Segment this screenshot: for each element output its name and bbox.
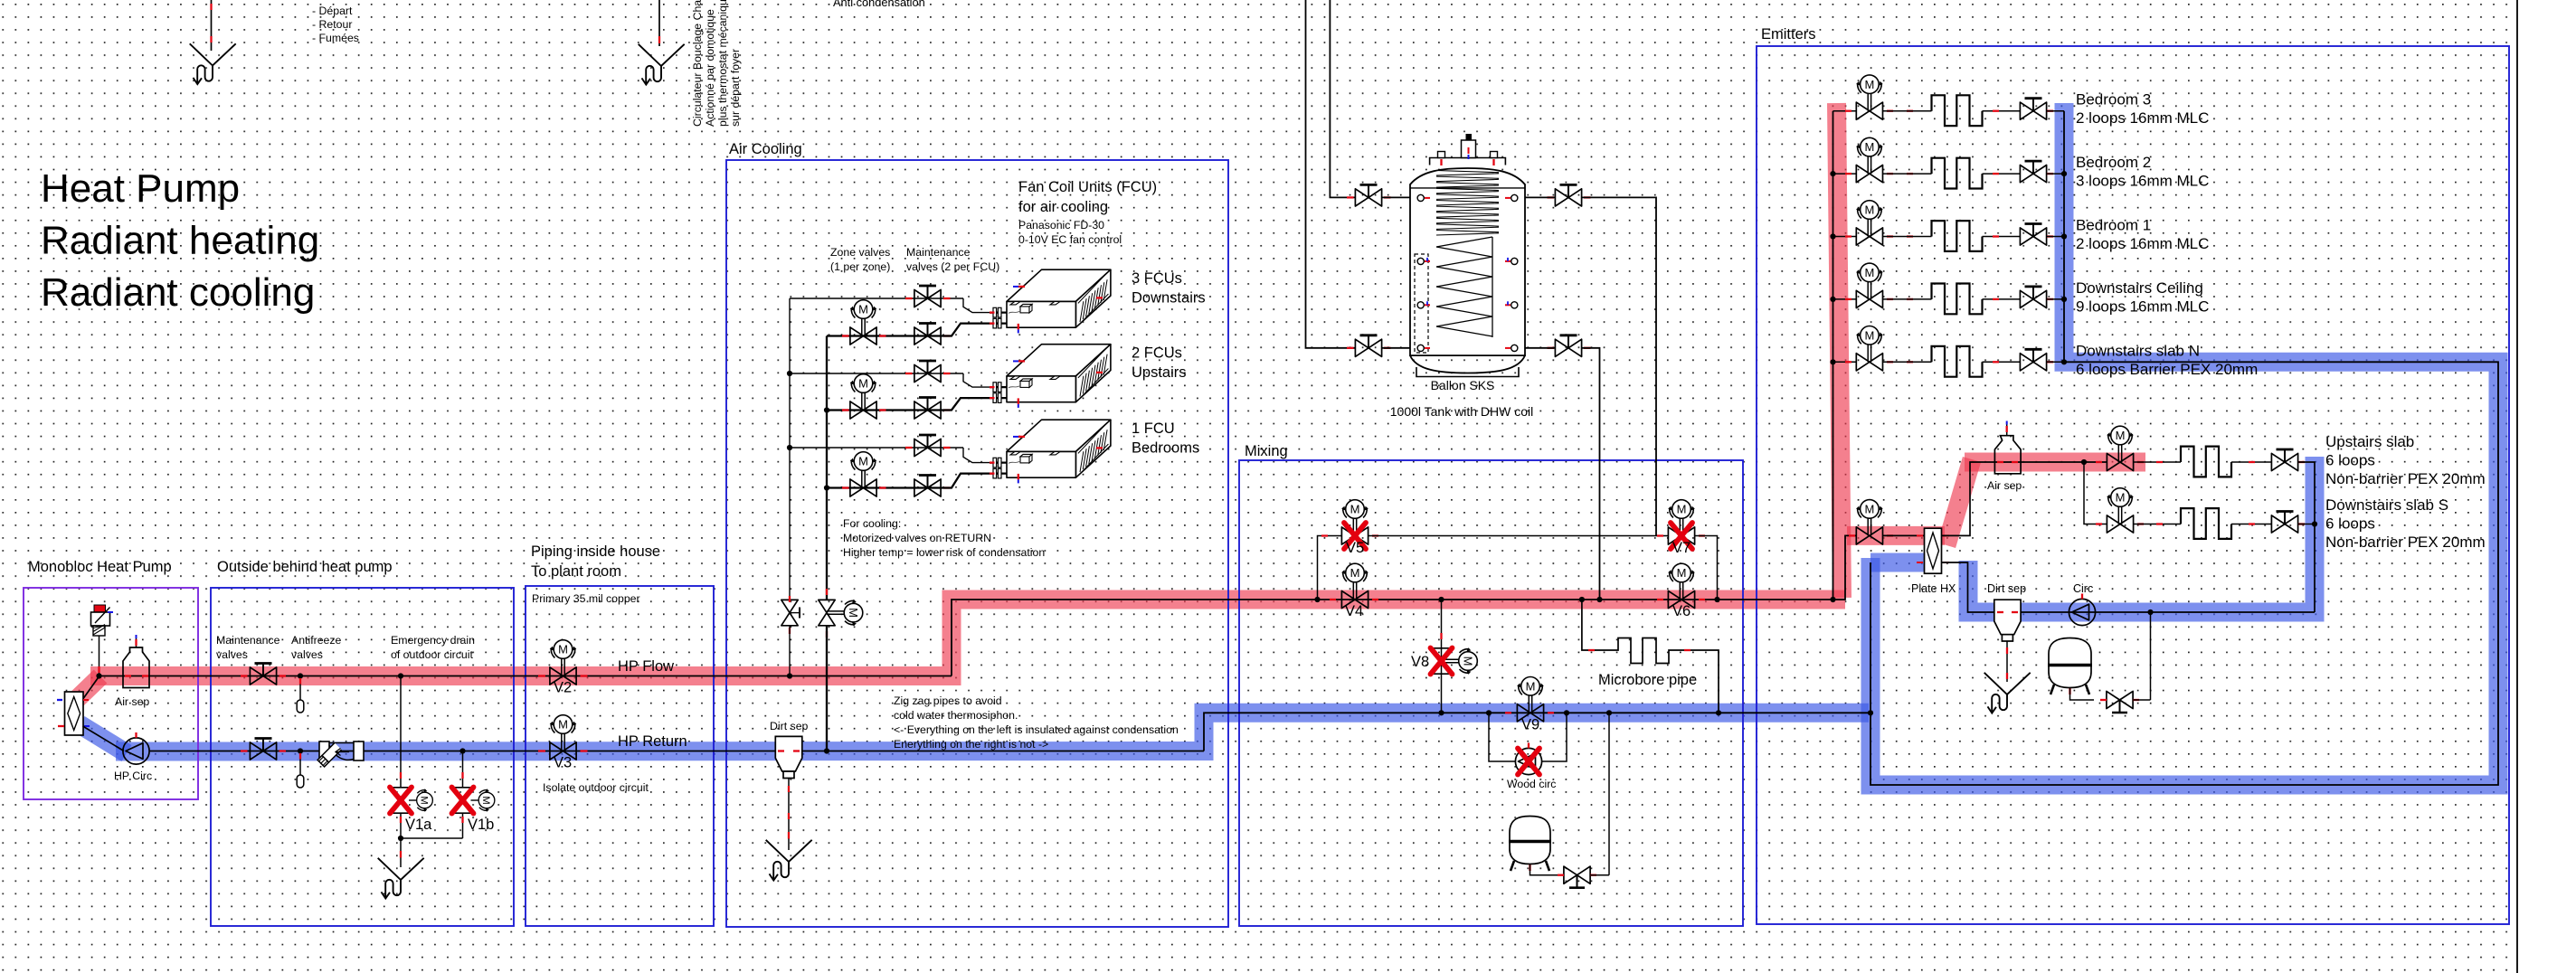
wire: HP flow risen section bbox=[952, 600, 1845, 676]
svg-text:For cooling:: For cooling: bbox=[843, 517, 901, 530]
microbore pipe branch bbox=[1579, 597, 1585, 602]
air separator (right) bbox=[1994, 421, 2021, 474]
svg-text:Radiant heating: Radiant heating bbox=[41, 219, 319, 263]
node: split to downstairs slab S bbox=[2081, 459, 2087, 465]
svg-text:for air cooling: for air cooling bbox=[1018, 199, 1108, 215]
air separator (monobloc) bbox=[123, 635, 149, 688]
emitter row Downstairs slab N bbox=[1833, 361, 1857, 363]
svg-text:<- Everything on the left is i: <- Everything on the left is insulated a… bbox=[894, 723, 1179, 736]
sensor well dashed bbox=[1415, 254, 1428, 353]
heating coil (lower zigzag) bbox=[1436, 237, 1492, 336]
node supply bus group 3 bbox=[787, 445, 792, 450]
svg-text:Air sep: Air sep bbox=[115, 695, 149, 708]
svg-text:3 loops 16mm MLC: 3 loops 16mm MLC bbox=[2076, 173, 2209, 190]
wire: branch down to slab S row bbox=[2084, 462, 2107, 524]
page frame right border bbox=[2516, 0, 2518, 973]
blue band emitters return riser and slab N loop bbox=[1870, 103, 2498, 785]
svg-text:Zig zag pipes to avoid: Zig zag pipes to avoid bbox=[894, 694, 1002, 707]
wire: riser to tank bottom-left valve bbox=[1306, 0, 1356, 348]
node: flow header joint bbox=[96, 673, 101, 678]
svg-text:- Fumées: - Fumées bbox=[312, 32, 359, 44]
svg-text:9 loops 16mm MLC: 9 loops 16mm MLC bbox=[2076, 298, 2209, 315]
svg-text:Mixing: Mixing bbox=[1245, 443, 1288, 459]
wire: tank bottom-right to flow line drop bbox=[1518, 347, 1556, 349]
svg-text:V7: V7 bbox=[1672, 540, 1690, 556]
tundish drain 2 bbox=[639, 44, 685, 85]
wire: dirt sep drain bbox=[788, 779, 790, 851]
svg-text:Downstairs slab N: Downstairs slab N bbox=[2076, 342, 2200, 359]
emergency drain branch V1a bbox=[398, 673, 403, 678]
svg-text:V8: V8 bbox=[1411, 654, 1429, 670]
svg-text:- Départ: - Départ bbox=[312, 5, 353, 17]
svg-text:HP Return: HP Return bbox=[618, 733, 687, 750]
valve V9 bbox=[1517, 677, 1544, 722]
vessel valve (right) bbox=[2107, 691, 2133, 713]
svg-text:Actionné par domotique: Actionné par domotique bbox=[704, 9, 716, 127]
tundish drain top-left bbox=[190, 43, 236, 84]
svg-text:Monobloc Heat Pump: Monobloc Heat Pump bbox=[28, 559, 172, 575]
node on HP flow bbox=[787, 673, 792, 678]
valve V1b (closed) bbox=[459, 748, 465, 753]
svg-text:V6: V6 bbox=[1672, 603, 1690, 619]
antifreeze valve on return bbox=[298, 748, 303, 753]
svg-text:plus thermostat mécanique: plus thermostat mécanique bbox=[716, 0, 729, 127]
3-way motorized valve at air cooling return root bbox=[819, 600, 863, 627]
rotated note Circulateur Bouclage bbox=[691, 0, 704, 127]
dirt sep (right) bbox=[1994, 600, 2021, 641]
wire: HP return line bbox=[149, 751, 1204, 752]
svg-text:Emitters: Emitters bbox=[1761, 26, 1816, 43]
valve upstairs slab bbox=[2107, 426, 2134, 470]
node: tank return drop bbox=[1596, 597, 1602, 602]
svg-text:HP Circ: HP Circ bbox=[114, 770, 152, 782]
Y strainer on return bbox=[317, 742, 364, 767]
svg-text:Fan Coil Units (FCU): Fan Coil Units (FCU) bbox=[1018, 179, 1157, 195]
valve V5 (closed) bbox=[1341, 500, 1368, 544]
svg-text:2 loops 16mm MLC: 2 loops 16mm MLC bbox=[2076, 109, 2209, 127]
circ pump (right) bbox=[2069, 594, 2095, 626]
svg-text:Dirt sep: Dirt sep bbox=[1987, 582, 2026, 595]
blue band plate HX secondary out bbox=[1870, 553, 1928, 572]
svg-text:Upstairs: Upstairs bbox=[1132, 364, 1187, 381]
svg-text:1 FCU: 1 FCU bbox=[1132, 420, 1175, 437]
svg-text:Dirt sep: Dirt sep bbox=[770, 720, 809, 732]
vessel isolation valve bbox=[1564, 866, 1590, 888]
svg-text:Wood circ: Wood circ bbox=[1507, 778, 1556, 790]
svg-text:6 loops Barrier PEX 20mm: 6 loops Barrier PEX 20mm bbox=[2076, 361, 2258, 378]
svg-text:Non-barrier PEX 20mm: Non-barrier PEX 20mm bbox=[2325, 470, 2486, 487]
plate HX (right) bbox=[1917, 528, 1949, 573]
HP Circ pump bbox=[123, 732, 149, 764]
blue band slab S / upstairs return to circ line bbox=[1968, 457, 2315, 612]
svg-text:Enerything on the right is not: Enerything on the right is not -> bbox=[894, 738, 1048, 751]
manual valve at air cooling supply root bbox=[781, 600, 798, 625]
svg-text:Higher temp = lower risk of co: Higher temp = lower risk of condensation bbox=[843, 546, 1045, 559]
svg-text:Anti condensation: Anti condensation bbox=[833, 0, 925, 9]
tank top flange and fittings bbox=[1430, 158, 1506, 165]
svg-text:V1b: V1b bbox=[468, 817, 494, 833]
antifreeze valve on flow bbox=[298, 673, 303, 678]
tank bottom-left valve bbox=[1355, 335, 1381, 357]
node: return riser base to HX bbox=[1868, 710, 1873, 715]
red band HX feed to upstairs slab supply bbox=[1847, 526, 1945, 545]
svg-text:cold water thermosiphon.: cold water thermosiphon. bbox=[894, 709, 1018, 722]
box: Air Cooling bbox=[726, 160, 1228, 927]
svg-text:0-10V EC fan control: 0-10V EC fan control bbox=[1018, 233, 1122, 246]
wires joining V1a/V1b to drain bbox=[400, 813, 402, 867]
wire: diagonal to plate HX bbox=[82, 676, 99, 700]
wire: tank top-right to V7 drop bbox=[1518, 196, 1556, 198]
node return bus group 2 bbox=[824, 407, 829, 412]
DHW coil (upper) bbox=[1436, 171, 1499, 236]
expansion vessel (right) bbox=[2048, 638, 2092, 695]
fan coil unit 2 bbox=[1007, 345, 1111, 402]
svg-text:Air Cooling: Air Cooling bbox=[729, 141, 802, 157]
node supply bus group 2 bbox=[787, 371, 792, 376]
box: Monobloc Heat Pump (purple) bbox=[24, 588, 198, 799]
svg-text:sur départ foyer: sur départ foyer bbox=[729, 49, 742, 127]
maintenance valve on flow bbox=[250, 664, 276, 685]
svg-text:Radiant cooling: Radiant cooling bbox=[41, 270, 315, 315]
wire: flow stub up to plate HX feed bbox=[1833, 535, 1857, 600]
box: Emitters bbox=[1757, 46, 2509, 924]
tundish below V1a bbox=[378, 858, 424, 899]
svg-text:V9: V9 bbox=[1521, 717, 1539, 733]
valve V6 bbox=[1668, 563, 1695, 608]
svg-text:V2: V2 bbox=[554, 680, 572, 696]
tank top-left valve bbox=[1355, 184, 1381, 206]
node return bus group 3 bbox=[824, 485, 829, 490]
svg-text:Heat Pump: Heat Pump bbox=[41, 166, 240, 211]
fan coil unit 3 bbox=[1007, 420, 1111, 477]
wire: diagonal HX to HP circ bbox=[83, 726, 125, 751]
valve downstairs slab S bbox=[2107, 488, 2134, 533]
maintenance valve on return bbox=[250, 739, 276, 760]
wire: riser to tank top-left valve bbox=[1330, 0, 1355, 197]
svg-text:Circulateur Bouclage Chauffa: Circulateur Bouclage Chauffa bbox=[691, 0, 704, 127]
svg-text:6 loops: 6 loops bbox=[2325, 515, 2375, 533]
node on HP return bbox=[824, 748, 829, 753]
emitter row Bedroom 1 bbox=[1833, 236, 1857, 238]
wire: vertical drop to tundish 2 bbox=[658, 0, 660, 46]
svg-text:Downstairs: Downstairs bbox=[1132, 289, 1206, 306]
svg-text:2 FCUs: 2 FCUs bbox=[1132, 345, 1182, 361]
FCU group 1: supply line bbox=[790, 298, 963, 299]
valve V1a (closed) bbox=[393, 788, 409, 813]
svg-text:of outdoor circuit: of outdoor circuit bbox=[391, 648, 473, 661]
svg-text:Bedroom 2: Bedroom 2 bbox=[2076, 154, 2151, 171]
svg-text:V5: V5 bbox=[1346, 540, 1364, 556]
wire: V5 branch bbox=[1314, 597, 1320, 602]
svg-text:Emergency drain: Emergency drain bbox=[391, 634, 475, 647]
svg-text:Downstairs slab S: Downstairs slab S bbox=[2325, 496, 2448, 514]
wire: FCU supply bus bbox=[789, 298, 791, 601]
wire: V5 to V7 line bbox=[1368, 535, 1669, 537]
box: Outside behind heat pump bbox=[211, 588, 514, 926]
svg-text:Ballon SKS: Ballon SKS bbox=[1431, 378, 1495, 392]
svg-text:(1 per zone): (1 per zone) bbox=[830, 260, 890, 273]
FCU group 3: return line bbox=[827, 486, 941, 488]
wire: right dirt sep drain bbox=[2006, 641, 2008, 682]
emitter row Downstairs Ceiling bbox=[1833, 298, 1857, 300]
tank ports bbox=[1417, 194, 1424, 201]
svg-text:Upstairs slab: Upstairs slab bbox=[2325, 433, 2414, 450]
svg-text:Circ: Circ bbox=[2073, 582, 2093, 595]
svg-text:Air sep: Air sep bbox=[1987, 479, 2022, 492]
svg-text:V3: V3 bbox=[554, 755, 572, 771]
plate HX (monobloc) bbox=[57, 692, 90, 735]
expansion vessel (mixing) bbox=[1606, 710, 1612, 715]
FCU group 2: return line bbox=[827, 409, 941, 411]
svg-text:Antifreeze: Antifreeze bbox=[291, 634, 342, 647]
svg-text:V1a: V1a bbox=[405, 817, 432, 833]
valve V4 bbox=[1341, 563, 1368, 608]
svg-text:Microbore pipe: Microbore pipe bbox=[1598, 672, 1697, 688]
safety valve bbox=[91, 605, 114, 636]
svg-text:valves: valves bbox=[291, 648, 323, 661]
svg-text:Zone valves: Zone valves bbox=[830, 246, 890, 259]
svg-text:V4: V4 bbox=[1345, 603, 1363, 619]
wire: emitters supply bus bbox=[1833, 111, 1834, 600]
FCU group 3: supply line bbox=[790, 447, 963, 449]
red band emitters supply riser bbox=[1837, 103, 1842, 598]
svg-text:Downstairs Ceiling: Downstairs Ceiling bbox=[2076, 279, 2203, 297]
blue diagonal monobloc HX to pump bbox=[80, 724, 127, 753]
valve V8 (closed 3-way) bbox=[1433, 647, 1477, 675]
wire: supply root to HP flow bbox=[789, 626, 791, 676]
svg-text:3 FCUs: 3 FCUs bbox=[1132, 270, 1182, 287]
FCU group 2: supply line bbox=[790, 373, 963, 374]
svg-text:valves (2 per FCU): valves (2 per FCU) bbox=[906, 260, 999, 273]
svg-text:HP Flow: HP Flow bbox=[618, 658, 674, 675]
fan coil unit 1 bbox=[1007, 269, 1111, 327]
box: Mixing bbox=[1239, 460, 1743, 926]
valve V7 (closed) bbox=[1668, 500, 1695, 544]
svg-text:Piping inside house: Piping inside house bbox=[531, 543, 660, 560]
emitter row Bedroom 3 bbox=[1833, 110, 1857, 112]
svg-text:Motorized valves on RETURN: Motorized valves on RETURN bbox=[843, 532, 991, 544]
svg-text:Bedroom 1: Bedroom 1 bbox=[2076, 217, 2151, 234]
svg-text:valves: valves bbox=[216, 648, 248, 661]
emitter row Bedroom 2 bbox=[1833, 173, 1857, 175]
svg-text:Panasonic FD-30: Panasonic FD-30 bbox=[1018, 219, 1104, 231]
svg-text:1000l Tank with DHW coil: 1000l Tank with DHW coil bbox=[1390, 404, 1533, 419]
box: Piping inside house bbox=[526, 586, 714, 926]
svg-text:Bedrooms: Bedrooms bbox=[1132, 439, 1199, 456]
wire: V7 bypass to flow line bbox=[1695, 536, 1718, 600]
svg-text:Primary 35 mil copper: Primary 35 mil copper bbox=[532, 592, 640, 605]
motorized valve on plate HX feed bbox=[1856, 500, 1883, 544]
wire: HP return risen section bbox=[1204, 713, 1869, 751]
wire: FCU return bus bbox=[826, 336, 828, 600]
tundish (right) bbox=[1984, 673, 2031, 713]
svg-text:Maintenance: Maintenance bbox=[216, 634, 280, 647]
svg-text:Isolate outdoor circuit: Isolate outdoor circuit bbox=[543, 781, 649, 794]
svg-text:Maintenance: Maintenance bbox=[906, 246, 971, 259]
FCU group 1: return line bbox=[827, 335, 941, 336]
node: expansion vessel branch bbox=[2147, 609, 2153, 615]
svg-text:Non-barrier PEX 20mm: Non-barrier PEX 20mm bbox=[2325, 534, 2486, 551]
svg-text:6 loops: 6 loops bbox=[2325, 452, 2375, 469]
svg-text:2 loops 16mm MLC: 2 loops 16mm MLC bbox=[2076, 235, 2209, 252]
svg-text:Bedroom 3: Bedroom 3 bbox=[2076, 91, 2151, 109]
svg-text:Outside behind heat pump: Outside behind heat pump bbox=[217, 559, 393, 575]
svg-text:Plate HX: Plate HX bbox=[1911, 582, 1956, 595]
wire: vertical drop to tundish 1 bbox=[211, 0, 213, 51]
HP Flow thick red band bbox=[90, 600, 1845, 676]
HP Return thick blue band bbox=[116, 713, 1869, 751]
wood circ pump (crossed out) bbox=[1515, 743, 1541, 775]
wire: HP flow line bbox=[99, 675, 952, 677]
wire: return root crossing to HP return bbox=[826, 626, 828, 751]
tundish below dirt sep bbox=[766, 840, 812, 881]
red diagonal monobloc HX to flow line bbox=[74, 676, 100, 702]
valve V3 motorized on return bbox=[550, 715, 577, 760]
svg-text:To plant room: To plant room bbox=[531, 563, 621, 580]
wood circ bypass bbox=[1486, 710, 1492, 715]
wire: V8 branch flow->return bbox=[1438, 597, 1444, 602]
svg-text:- Retour: - Retour bbox=[312, 18, 352, 31]
wire: HX secondary return line through dirt sep/circ bbox=[1942, 562, 2316, 612]
dirt sep on HP return bbox=[775, 736, 802, 778]
Ballon SKS tank body bbox=[1410, 134, 1525, 377]
tank top-right valve bbox=[1555, 184, 1581, 206]
wire: slab N return loop around bottom bbox=[1870, 362, 2498, 785]
tank bottom-right valve bbox=[1555, 335, 1581, 357]
wire: emitters return riser bbox=[2063, 111, 2065, 363]
wire safety valve to flow line bbox=[99, 636, 100, 676]
wire: HX secondary flow up to upstairs slab bbox=[1942, 462, 2107, 535]
valve V2 motorized on flow bbox=[550, 640, 577, 685]
